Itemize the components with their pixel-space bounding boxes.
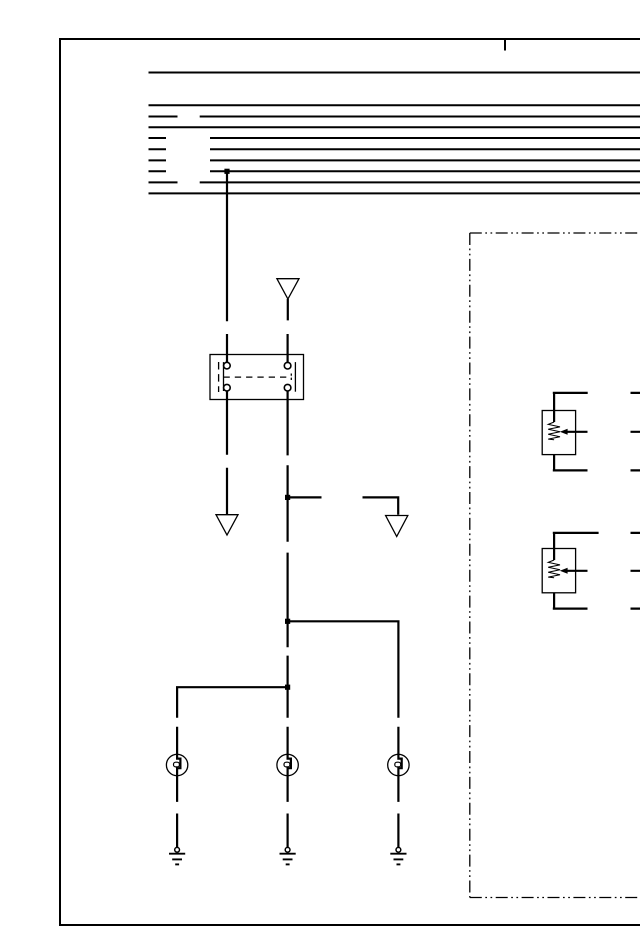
frame left border: [59, 38, 61, 926]
wire below bulb L2: [287, 776, 289, 848]
relay right contact bar: [294, 362, 296, 392]
wire bus line 3 (two segments): [149, 116, 640, 118]
ground G1: [169, 847, 185, 864]
junction node A: [285, 495, 290, 500]
wire stubs at right edge (R1 rows): [631, 393, 640, 471]
wire from relay pin 2 down (x=227): [226, 391, 228, 515]
wire from node B to right branch: [288, 620, 399, 754]
wire bus line 10: [149, 192, 640, 194]
connector arrow triangle above relay: [277, 279, 299, 299]
wire from triangle to relay pin (x=287.6): [287, 299, 289, 362]
wire below bulb L3: [397, 776, 399, 848]
wire bus line 1: [149, 72, 640, 74]
wire stubs at right edge (R2 rows): [631, 533, 640, 609]
grid tick mark on top border: [504, 39, 506, 51]
module boundary dash-dot box: [470, 233, 640, 898]
bulb L3 circle: [388, 754, 409, 775]
relay pin 3 (top right): [284, 362, 291, 369]
relay pin 1 (top left): [224, 362, 231, 369]
bulb L1 filament: [177, 754, 180, 775]
ground G3: [390, 847, 406, 864]
wire from relay pin 4 down (x=287.6): [287, 391, 289, 754]
bulb L2 filament: [288, 754, 291, 775]
relay box outline: [210, 355, 304, 400]
resistor R1 wiper arrow: [566, 431, 588, 433]
resistor R1 top wire: [553, 392, 588, 411]
resistor R2 bottom wire: [553, 593, 588, 609]
resistor R2 zigzag element: [553, 549, 555, 561]
resistor R1 zigzag element: [553, 411, 555, 423]
wire from bus to relay pin (x=227): [226, 171, 228, 362]
bulb L2 circle: [277, 754, 298, 775]
junction node B: [285, 619, 290, 624]
wire below bulb L1: [176, 776, 178, 848]
relay internal dashed vertical (coil side): [218, 362, 220, 392]
bulb L1 circle: [166, 754, 187, 775]
resistor R2 box: [542, 549, 575, 593]
relay pin 4 (bottom right): [284, 384, 291, 391]
wire bus line 7 (two segments): [149, 159, 640, 161]
relay pin 2 (bottom left): [224, 384, 231, 391]
wire bus line 8 (two segments): [149, 170, 640, 172]
wire stub to hanging connector arrow: [363, 496, 399, 514]
relay internal dashed linkage: [224, 376, 292, 378]
junction node C: [285, 685, 290, 690]
wire from node C to left branch: [177, 686, 288, 754]
resistor R1 bottom wire: [553, 455, 588, 471]
connector arrow triangle at wire end (x=397): [386, 516, 408, 537]
relay linkage vertical dash: [290, 374, 292, 382]
bulb L3 filament: [398, 754, 401, 775]
wire stub right from node A: [288, 496, 322, 498]
wire bus line 2: [149, 104, 640, 106]
resistor R1 box: [542, 411, 575, 455]
ground G2: [280, 847, 296, 864]
resistor R2 top wire: [553, 532, 599, 549]
frame top border: [59, 38, 640, 40]
junction node on bus line 8: [224, 169, 229, 174]
resistor R2 wiper arrow: [566, 570, 588, 572]
connector arrow triangle at wire end (x=227): [216, 515, 238, 535]
wire bus line 4: [149, 126, 640, 128]
wire bus line 9 (two segments): [149, 181, 640, 183]
wire bus line 5 (two segments): [149, 137, 640, 139]
wire bus line 6 (two segments): [149, 148, 640, 150]
frame bottom border: [59, 924, 640, 926]
relay left contact bar: [223, 362, 225, 391]
